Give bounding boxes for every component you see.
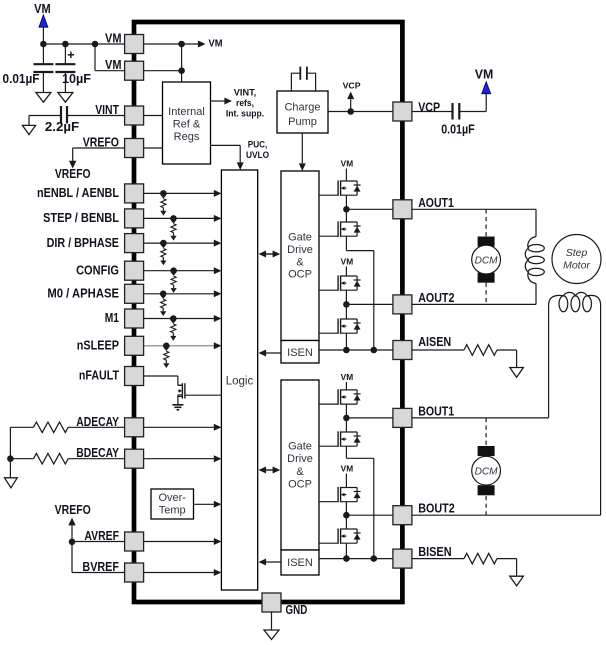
svg-text:AVREF: AVREF (84, 529, 119, 543)
svg-text:&: & (296, 256, 304, 268)
svg-text:0.01µF: 0.01µF (3, 72, 40, 86)
svg-text:Logic: Logic (226, 375, 254, 387)
svg-text:OCP: OCP (288, 479, 312, 491)
svg-text:DIR / BPHASE: DIR / BPHASE (47, 236, 119, 250)
svg-text:ISEN: ISEN (287, 347, 313, 359)
svg-text:Drive: Drive (287, 453, 313, 465)
svg-text:VREFO: VREFO (55, 503, 91, 517)
svg-text:BDECAY: BDECAY (76, 446, 119, 460)
svg-text:BVREF: BVREF (82, 560, 119, 574)
svg-text:ISEN: ISEN (287, 557, 313, 569)
svg-text:VM: VM (475, 67, 494, 81)
svg-text:Gate: Gate (288, 441, 312, 453)
svg-text:VM: VM (105, 32, 122, 46)
svg-text:&: & (296, 466, 304, 478)
svg-text:M0 / APHASE: M0 / APHASE (47, 287, 119, 301)
svg-text:BISEN: BISEN (418, 545, 451, 559)
svg-text:nSLEEP: nSLEEP (77, 339, 119, 353)
svg-text:VCP: VCP (418, 101, 440, 115)
svg-text:VREFO: VREFO (55, 167, 91, 181)
svg-text:CONFIG: CONFIG (76, 263, 119, 277)
svg-text:DCM: DCM (475, 255, 499, 266)
svg-text:BOUT2: BOUT2 (418, 502, 455, 516)
svg-text:Gate: Gate (288, 232, 312, 244)
svg-text:AOUT1: AOUT1 (418, 196, 454, 210)
svg-text:VM: VM (341, 464, 354, 474)
svg-text:10µF: 10µF (62, 72, 91, 86)
svg-text:AISEN: AISEN (418, 335, 451, 349)
svg-text:Temp: Temp (159, 504, 186, 516)
svg-text:refs,: refs, (236, 98, 254, 109)
svg-text:GND: GND (286, 603, 308, 617)
svg-text:DCM: DCM (475, 466, 499, 477)
svg-text:2.2µF: 2.2µF (45, 120, 80, 134)
svg-text:VM: VM (341, 257, 354, 267)
svg-text:Internal: Internal (168, 106, 205, 118)
svg-text:Motor: Motor (563, 260, 590, 272)
svg-text:VM: VM (341, 159, 354, 169)
svg-text:UVLO: UVLO (246, 150, 269, 161)
svg-text:M1: M1 (105, 311, 119, 325)
svg-text:VM: VM (209, 37, 223, 49)
svg-text:Charge: Charge (284, 102, 320, 114)
svg-text:VM: VM (341, 372, 354, 382)
svg-text:nFAULT: nFAULT (79, 369, 119, 383)
svg-text:VREFO: VREFO (83, 136, 120, 150)
svg-text:Pump: Pump (288, 116, 317, 128)
svg-text:0.01µF: 0.01µF (441, 123, 475, 137)
svg-text:VINT: VINT (95, 103, 119, 117)
svg-text:nENBL / AENBL: nENBL / AENBL (37, 186, 119, 200)
svg-text:VM: VM (105, 58, 122, 72)
svg-text:STEP / BENBL: STEP / BENBL (43, 211, 119, 225)
svg-text:Over-: Over- (158, 492, 186, 504)
svg-text:ADECAY: ADECAY (76, 415, 119, 429)
svg-text:Drive: Drive (287, 244, 313, 256)
svg-text:Ref &: Ref & (173, 118, 201, 130)
svg-text:Regs: Regs (174, 131, 200, 143)
svg-text:VCP: VCP (343, 81, 361, 91)
svg-text:Int. supp.: Int. supp. (226, 109, 264, 120)
svg-text:OCP: OCP (288, 269, 312, 281)
svg-text:VM: VM (34, 2, 51, 16)
svg-text:Step: Step (566, 247, 588, 259)
svg-text:BOUT1: BOUT1 (418, 404, 454, 418)
svg-text:AOUT2: AOUT2 (418, 291, 454, 305)
